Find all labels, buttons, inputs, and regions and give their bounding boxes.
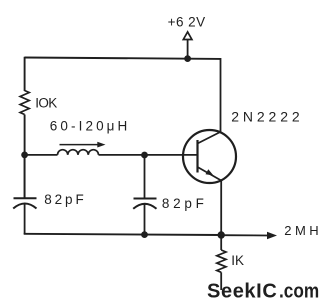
svg-text:82pF: 82pF [44, 192, 83, 207]
capacitor C2 82pF [133, 155, 204, 235]
inductor tuning arrow [60, 142, 106, 148]
wire collector to top rail [220, 58, 222, 132]
transistor Q1 2N2222 [183, 109, 300, 183]
svg-text:.com: .com [279, 281, 319, 303]
junction C2 / bottom rail [141, 231, 148, 238]
svg-text:2MH: 2MH [284, 223, 319, 238]
wire bottom rail [24, 234, 222, 235]
svg-text:+6 2V: +6 2V [168, 14, 206, 29]
junction supply/top rail [184, 55, 191, 62]
power supply arrow (open triangle) [183, 32, 192, 40]
inductor L1 60-120uH label [50, 119, 128, 134]
wire top rail [25, 58, 221, 59]
output arrow 2MHz [221, 223, 319, 239]
wire emitter down to output node [220, 180, 222, 235]
svg-text:IOK: IOK [35, 95, 57, 110]
capacitor C1 82pF [13, 155, 84, 234]
svg-text:IK: IK [231, 253, 244, 268]
svg-text:82pF: 82pF [162, 196, 204, 211]
wire left rail upper [24, 57, 26, 91]
wire left junction to inductor [25, 154, 58, 156]
junction emitter / bottom rail (output node) [218, 231, 225, 238]
svg-text:2N2222: 2N2222 [231, 109, 300, 125]
resistor R1 10K [20, 91, 57, 115]
resistor R2 1K [217, 235, 244, 290]
wire from supply arrow to top rail [187, 40, 189, 59]
inductor L1 coil [58, 150, 99, 155]
svg-text:60-I20μH: 60-I20μH [50, 119, 128, 134]
node +6.2V supply label [168, 14, 206, 29]
wire left rail lower [24, 115, 26, 199]
svg-text:SeekIC: SeekIC [207, 281, 277, 303]
wire inductor to base (node B) [99, 154, 198, 156]
junction inductor / C2 [141, 152, 148, 159]
junction left rail / inductor [21, 152, 28, 159]
watermark SeekIC.com [207, 281, 319, 303]
